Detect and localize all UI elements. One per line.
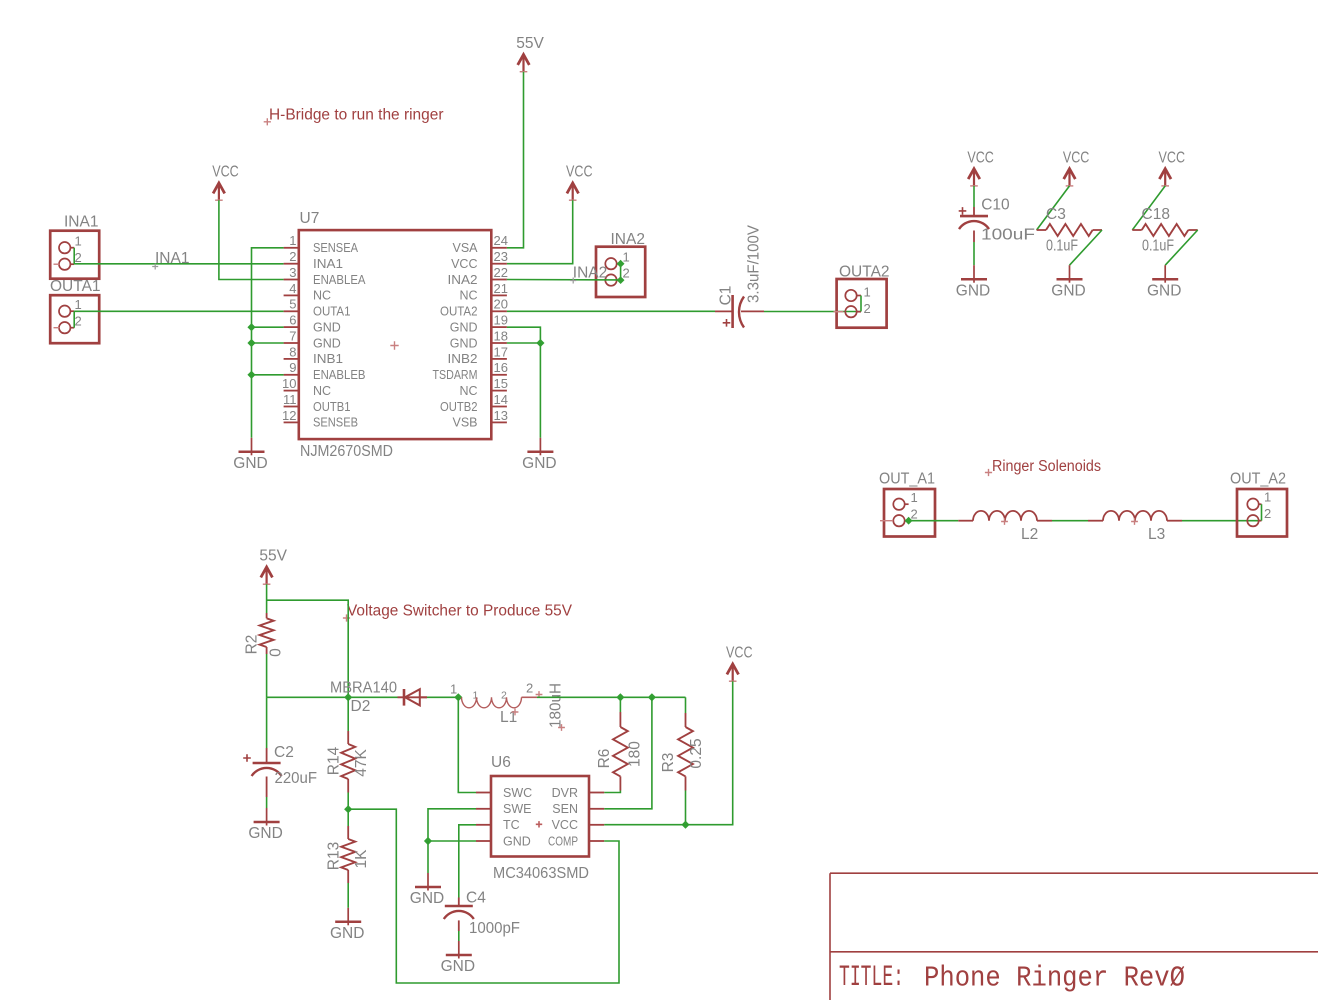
wire SENSEA pin1 to GND rail [252, 248, 284, 438]
wire R3 to VCC rail [685, 791, 687, 825]
supply 55V (switcher) [266, 569, 268, 584]
svg-text:1000pF: 1000pF [469, 920, 520, 937]
svg-text:4: 4 [289, 281, 296, 296]
svg-text:INB1: INB1 [313, 352, 343, 366]
capacitor C10 100uF polarized [973, 207, 975, 216]
wire OUT_A2 pin1-pin2 link [1261, 504, 1263, 521]
svg-text:SENSEA: SENSEA [313, 241, 359, 255]
node junction L1 pin1 [454, 693, 462, 701]
supply VCC (C18) [1164, 171, 1166, 186]
pin 19 GND [491, 326, 507, 328]
wire GND pin 6 [252, 326, 284, 328]
svg-text:INA2: INA2 [573, 265, 607, 282]
svg-text:SEN: SEN [552, 802, 578, 816]
svg-text:R2: R2 [244, 635, 261, 655]
svg-text:2: 2 [1264, 506, 1271, 521]
wire GND pin 7 [252, 342, 284, 344]
svg-text:20: 20 [494, 297, 508, 312]
svg-text:ENABLEA: ENABLEA [313, 273, 366, 287]
svg-text:220uF: 220uF [275, 770, 318, 787]
svg-text:TC: TC [503, 818, 520, 832]
svg-text:OUT_A2: OUT_A2 [1230, 471, 1286, 488]
node junction pins 18/19 [536, 339, 544, 347]
svg-text:47K: 47K [353, 749, 370, 777]
wire U6 SWE down [428, 809, 476, 841]
svg-text:2: 2 [289, 249, 296, 264]
pin 7 GND [284, 342, 299, 344]
svg-text:SWC: SWC [503, 786, 532, 800]
svg-text:INA1: INA1 [313, 257, 343, 271]
wire 55V to U7 VSA pin 24 [507, 72, 524, 248]
svg-text:GND: GND [522, 455, 556, 472]
svg-text:NC: NC [459, 289, 477, 303]
wire OUTA2 pin1-pin2 link [860, 296, 862, 312]
wire C18 to ground (diagonal) [1165, 230, 1198, 265]
svg-text:U6: U6 [491, 754, 511, 771]
resistor R13 value 1K [347, 809, 349, 826]
svg-text:6: 6 [289, 313, 296, 328]
svg-text:180uH: 180uH [548, 683, 565, 728]
svg-text:C4: C4 [466, 890, 486, 907]
wire C1 to OUTA2 connector [764, 311, 861, 313]
node junction R3/VCC [681, 821, 689, 829]
pin 13 VSB [491, 421, 507, 423]
svg-text:0: 0 [267, 648, 284, 657]
node junction D2/R14 [344, 693, 352, 701]
svg-text:23: 23 [494, 249, 508, 264]
svg-text:NC: NC [313, 384, 331, 398]
svg-text:10: 10 [282, 376, 296, 391]
svg-text:1: 1 [450, 682, 457, 697]
svg-text:1: 1 [473, 690, 479, 702]
node junction OUT_A1 pin2 [905, 517, 913, 525]
wire R2 to node [266, 654, 268, 697]
svg-text:18: 18 [494, 328, 508, 343]
svg-text:2: 2 [623, 266, 630, 281]
capacitor C18 0.1uF [1132, 229, 1141, 231]
pin 23 VCC [491, 263, 507, 265]
svg-text:OUTA1: OUTA1 [50, 278, 101, 295]
pin 18 GND [491, 342, 507, 344]
svg-text:15: 15 [494, 376, 508, 391]
svg-text:GND: GND [450, 320, 478, 334]
svg-text:GND: GND [450, 336, 478, 350]
svg-text:MBRA140: MBRA140 [330, 680, 397, 697]
svg-text:C10: C10 [981, 197, 1010, 214]
capacitor C3 0.1uF [1037, 229, 1046, 231]
svg-text:VCC: VCC [967, 149, 994, 166]
svg-text:16: 16 [494, 360, 508, 375]
svg-text:1: 1 [289, 233, 296, 248]
wire VCC to U7 ENABLEA pin 3 [219, 200, 284, 279]
supply VCC (switcher right) [732, 666, 734, 681]
wire U6 GND pin [428, 840, 476, 842]
ground GND (C2) [266, 808, 268, 826]
pin 1 SENSEA [284, 247, 299, 249]
svg-text:8: 8 [289, 344, 296, 359]
svg-text:TITLE:: TITLE: [839, 960, 904, 994]
svg-text:1: 1 [623, 249, 630, 264]
pin 8 INB1 [284, 358, 299, 360]
wire node to D2 anode [267, 696, 398, 698]
svg-text:NC: NC [313, 289, 331, 303]
svg-text:7: 7 [289, 328, 296, 343]
svg-text:55V: 55V [259, 548, 287, 565]
node junction SEN branch [648, 693, 656, 701]
pin 14 OUTB2 [491, 406, 507, 408]
svg-text:1: 1 [1264, 489, 1271, 504]
pin 24 VSA [491, 247, 507, 249]
wire C3 to ground (diagonal) [1070, 230, 1103, 265]
svg-text:24: 24 [494, 233, 508, 248]
svg-text:12: 12 [282, 408, 296, 423]
supply VCC (right of U7) [572, 185, 574, 200]
svg-text:GND: GND [330, 925, 364, 942]
svg-text:13: 13 [494, 408, 508, 423]
wire SEN branch to U6 [604, 697, 652, 809]
svg-text:GND: GND [313, 320, 341, 334]
node junction INA2 pin2 [617, 276, 625, 284]
svg-text:GND: GND [313, 336, 341, 350]
wire C10 to ground [973, 242, 975, 265]
pin 9 ENABLEB [284, 374, 299, 376]
pin 3 ENABLEA [284, 279, 299, 281]
svg-text:R6: R6 [596, 749, 613, 769]
ground GND (C18) [1164, 265, 1166, 283]
svg-text:H-Bridge to run the ringer: H-Bridge to run the ringer [269, 107, 444, 124]
wire C4 to ground [458, 931, 460, 941]
supply VCC (C10) [973, 171, 975, 186]
svg-text:L3: L3 [1148, 526, 1165, 543]
svg-text:VCC: VCC [552, 818, 578, 832]
wire branch to D2 line [267, 600, 349, 697]
pin 5 OUTA1 [284, 310, 299, 312]
svg-text:VCC: VCC [726, 645, 753, 662]
U6 pin DVR [589, 792, 604, 794]
U6 pin SWC [476, 792, 491, 794]
svg-text:OUTA2: OUTA2 [440, 305, 478, 319]
svg-text:11: 11 [283, 392, 297, 407]
wire C2 to ground [266, 797, 268, 808]
pin 6 GND [284, 326, 299, 328]
svg-text:100uF: 100uF [981, 226, 1035, 243]
svg-text:ENABLEB: ENABLEB [313, 368, 366, 382]
svg-text:C18: C18 [1142, 206, 1170, 223]
pin 2 INA1 [284, 263, 299, 265]
wire U7 INA2 pin 22 to connector [507, 279, 621, 281]
svg-text:OUT_A1: OUT_A1 [879, 471, 935, 488]
svg-text:OUTB1: OUTB1 [313, 400, 351, 414]
svg-text:COMP: COMP [548, 834, 578, 848]
wire 55V to R2 and branch [266, 584, 268, 613]
svg-text:2: 2 [75, 250, 82, 265]
svg-text:R14: R14 [326, 746, 343, 775]
svg-text:2: 2 [526, 681, 533, 696]
svg-text:SWE: SWE [503, 802, 531, 816]
svg-text:GND: GND [1147, 282, 1181, 299]
svg-text:2: 2 [911, 506, 918, 521]
svg-text:SENSEB: SENSEB [313, 416, 358, 430]
wire to ground (U6) [427, 841, 429, 873]
svg-text:MC34063SMD: MC34063SMD [493, 865, 589, 882]
wire U6 TC to C4 [459, 825, 476, 898]
wire L1 to R6/R3 nodes [537, 696, 686, 698]
svg-text:14: 14 [494, 392, 508, 407]
svg-text:2: 2 [864, 301, 871, 316]
svg-text:0.1uF: 0.1uF [1046, 238, 1078, 255]
wire VCC to U7 VCC pin 23 [507, 200, 573, 264]
ground GND (C3) [1069, 265, 1071, 283]
resistor R6 value 180 [619, 697, 621, 712]
svg-text:NJM2670SMD: NJM2670SMD [300, 443, 393, 460]
wire R6 to U6 DVR [604, 791, 620, 793]
svg-text:55V: 55V [516, 35, 544, 52]
svg-text:C3: C3 [1046, 206, 1066, 223]
wire U6 SWC to L1 node [458, 697, 476, 792]
pin 4 NC [284, 294, 299, 296]
svg-text:VCC: VCC [212, 164, 239, 181]
U6 pin COMP [589, 840, 604, 842]
svg-text:1: 1 [75, 297, 82, 312]
svg-text:NC: NC [459, 384, 477, 398]
svg-text:21: 21 [494, 281, 508, 296]
svg-text:INA2: INA2 [448, 273, 478, 287]
node junction R14/R13/feedback [344, 805, 352, 813]
svg-text:Ringer Solenoids: Ringer Solenoids [992, 458, 1101, 475]
node junction pin6 rail [247, 323, 255, 331]
resistor R2 value 0 [266, 613, 268, 618]
svg-text:INA1: INA1 [155, 250, 189, 267]
pin 16 TSDARM [491, 374, 507, 376]
wire feedback COMP to R14/R13 node [348, 809, 619, 983]
svg-text:R3: R3 [660, 753, 677, 773]
svg-text:GND: GND [503, 834, 531, 848]
svg-text:VCC: VCC [1063, 149, 1090, 166]
U6 pin SEN [589, 808, 604, 810]
U6 pin SWE [476, 808, 491, 810]
inductor L3 [1088, 520, 1103, 522]
svg-text:GND: GND [410, 890, 444, 907]
wire INA1 pin1-pin2 link [73, 248, 75, 265]
svg-text:VCC: VCC [566, 164, 593, 181]
svg-text:2: 2 [75, 313, 82, 328]
svg-text:3.3uF/100V: 3.3uF/100V [746, 224, 763, 303]
svg-text:TSDARM: TSDARM [433, 368, 478, 382]
title block frame [830, 873, 1318, 1000]
svg-text:180: 180 [626, 741, 643, 767]
svg-text:0.1uF: 0.1uF [1142, 238, 1174, 255]
wire L2 to L3 [1052, 520, 1088, 522]
svg-text:L2: L2 [1021, 526, 1038, 543]
inductor L2 [958, 520, 973, 522]
node junction R6 top [616, 693, 624, 701]
wire D2 to L1 node [427, 696, 458, 698]
svg-text:C1: C1 [718, 286, 735, 306]
ground GND (U6) [427, 873, 429, 891]
node junction INA2 pin1 [617, 260, 625, 268]
svg-text:1K: 1K [353, 849, 370, 869]
svg-text:C2: C2 [274, 744, 294, 761]
wire VCC to C3 (diagonal) [1037, 186, 1070, 230]
pin 21 NC [491, 294, 507, 296]
svg-text:GND: GND [233, 455, 267, 472]
supply VCC (C3) [1068, 171, 1070, 186]
svg-text:5: 5 [289, 297, 296, 312]
wire INA2 pin1-pin2 link [620, 264, 622, 280]
svg-text:GND: GND [248, 825, 282, 842]
node junction SWE/GND [424, 837, 432, 845]
svg-text:0.25: 0.25 [688, 738, 705, 768]
wire GND pin 18 [507, 342, 541, 344]
U6 pin GND [476, 840, 491, 842]
svg-text:INB2: INB2 [448, 352, 478, 366]
svg-text:R13: R13 [326, 842, 343, 870]
wire OUTA1 to U7 OUTA1 pin 5 [74, 310, 283, 312]
wire L3 to OUT_A2 [1182, 520, 1262, 522]
wire VCC rail to U6 VCC pin [604, 681, 733, 825]
node junction pin9 rail [247, 371, 255, 379]
svg-text:1: 1 [911, 490, 918, 505]
wire OUTA1 pin1-pin2 link [73, 311, 75, 328]
svg-text:VCC: VCC [1159, 149, 1186, 166]
svg-text:17: 17 [494, 344, 508, 359]
pin 12 SENSEB [284, 421, 299, 423]
pin 22 INA2 [491, 279, 507, 281]
svg-text:OUTB2: OUTB2 [440, 400, 478, 414]
svg-text:22: 22 [494, 265, 508, 280]
svg-text:1: 1 [864, 284, 871, 299]
svg-text:INA1: INA1 [64, 213, 98, 230]
ground GND (below U7 left) [251, 438, 253, 456]
wire net INA1 to U7 pin 2 [74, 263, 283, 265]
wire R14 to R13 node [347, 793, 349, 810]
wire GND pin 19 [507, 327, 541, 343]
svg-text:VCC: VCC [451, 257, 477, 271]
wire OUT_A1 to L2 [909, 520, 959, 522]
svg-text:OUTA1: OUTA1 [313, 305, 351, 319]
wire ENABLEB pin 9 [252, 374, 284, 376]
wire to ground (right) [539, 343, 541, 438]
pin 20 OUTA2 [491, 310, 507, 312]
resistor R3 value 0.25 [685, 697, 687, 713]
U6 pin TC [476, 824, 491, 826]
U6 pin VCC [589, 824, 604, 826]
svg-text:U7: U7 [300, 210, 320, 227]
supply 55V (top) [522, 57, 524, 72]
svg-text:VSA: VSA [452, 241, 478, 255]
ground GND (below U7 right) [539, 438, 541, 456]
pin 11 OUTB1 [284, 406, 299, 408]
svg-text:19: 19 [494, 313, 508, 328]
wire U7 OUTA2 pin 20 to C1 [507, 310, 715, 312]
capacitor C2 220uF polarized [266, 697, 268, 748]
capacitor C4 1000pF [458, 898, 460, 907]
ground GND (C4) [458, 941, 460, 959]
svg-text:Phone Ringer RevØ: Phone Ringer RevØ [924, 962, 1185, 995]
svg-text:GND: GND [1051, 282, 1085, 299]
resistor R14 value 47K [347, 697, 349, 731]
node junction pin7 rail [247, 339, 255, 347]
svg-text:D2: D2 [351, 698, 371, 715]
ground GND (C10) [973, 265, 975, 283]
pin 15 NC [491, 390, 507, 392]
svg-text:DVR: DVR [552, 786, 578, 800]
svg-text:GND: GND [441, 958, 475, 975]
ground GND (R13) [347, 908, 349, 926]
svg-text:3: 3 [289, 265, 296, 280]
svg-text:9: 9 [289, 360, 296, 375]
wire R13 to ground [347, 883, 349, 908]
pin 17 INB2 [491, 358, 507, 360]
svg-text:VSB: VSB [452, 416, 477, 430]
svg-text:1: 1 [75, 233, 82, 248]
svg-text:Voltage Switcher to Produce 55: Voltage Switcher to Produce 55V [347, 603, 573, 620]
supply VCC (left of U7) [218, 185, 220, 200]
capacitor C1 3.3uF/100V polarized [715, 310, 733, 312]
pin 10 NC [284, 390, 299, 392]
svg-text:GND: GND [956, 282, 990, 299]
wire VCC to C18 (diagonal) [1132, 186, 1165, 230]
wire VCC to C10 [973, 186, 975, 207]
